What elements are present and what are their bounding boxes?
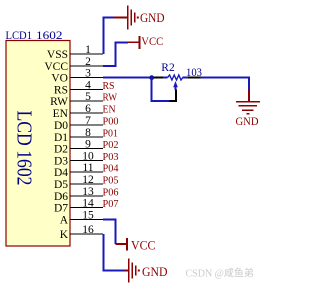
- wire VCC pin2 to top VCC: [103, 42, 128, 66]
- svg-text:D0: D0: [54, 120, 68, 132]
- svg-text:103: 103: [186, 65, 202, 79]
- pin 9 (D2): [54, 138, 103, 155]
- svg-text:VSS: VSS: [47, 49, 68, 61]
- svg-text:D5: D5: [54, 179, 68, 191]
- junction node VO: [149, 75, 154, 80]
- svg-text:VCC: VCC: [44, 61, 68, 73]
- svg-text:9: 9: [85, 138, 91, 150]
- svg-text:CSDN @咸鱼弟: CSDN @咸鱼弟: [186, 267, 254, 280]
- pin 14 (D7): [54, 197, 103, 214]
- svg-text:5: 5: [85, 91, 91, 103]
- svg-text:14: 14: [82, 197, 94, 209]
- ground GND (right, earth): [236, 90, 261, 128]
- svg-text:P00: P00: [103, 116, 119, 128]
- svg-text:VCC: VCC: [131, 239, 156, 253]
- pin 15 (A): [60, 209, 103, 226]
- svg-text:GND: GND: [142, 264, 168, 279]
- pin 7 (D0): [54, 115, 103, 132]
- svg-text:D3: D3: [54, 156, 68, 168]
- svg-text:3: 3: [85, 67, 91, 79]
- svg-text:8: 8: [85, 127, 91, 139]
- svg-text:LCD 1602: LCD 1602: [13, 111, 37, 186]
- svg-text:P07: P07: [103, 198, 119, 210]
- wire VO pin3 to R2 and right GND: [103, 77, 152, 79]
- svg-text:A: A: [60, 215, 69, 227]
- wire wiper return loop: [152, 78, 170, 102]
- svg-text:P05: P05: [103, 175, 119, 187]
- svg-text:P06: P06: [103, 187, 119, 199]
- svg-text:GND: GND: [236, 114, 259, 128]
- svg-text:6: 6: [85, 103, 91, 115]
- svg-text:10: 10: [82, 150, 94, 162]
- pin 11 (D4): [54, 162, 103, 179]
- wire VSS pin1 to top GND: [104, 18, 116, 55]
- svg-text:15: 15: [82, 209, 94, 221]
- svg-text:K: K: [60, 229, 69, 241]
- svg-text:RW: RW: [50, 96, 68, 108]
- power VCC (top): [127, 34, 163, 49]
- svg-text:12: 12: [82, 174, 94, 186]
- resistor R2 (potentiometer): [168, 75, 183, 90]
- pin 6 (EN): [53, 103, 103, 120]
- pin 2 (VCC): [44, 56, 103, 73]
- ground GND (bottom, power ground): [125, 259, 168, 283]
- svg-text:P03: P03: [103, 151, 119, 163]
- svg-text:EN: EN: [103, 104, 116, 116]
- pin 13 (D6): [54, 186, 103, 203]
- svg-text:P02: P02: [103, 139, 119, 151]
- pin 10 (D3): [54, 150, 103, 167]
- wire K pin16 to bottom GND: [104, 234, 126, 271]
- svg-text:D1: D1: [54, 132, 68, 144]
- svg-text:7: 7: [85, 115, 91, 127]
- svg-text:RS: RS: [54, 85, 68, 97]
- svg-text:RS: RS: [103, 80, 115, 92]
- svg-text:11: 11: [82, 162, 93, 174]
- ground GND (top, power ground): [114, 6, 165, 30]
- pin 4 (RS): [54, 79, 103, 96]
- svg-text:1602: 1602: [36, 28, 63, 42]
- pin 16 (K): [60, 224, 103, 241]
- wire A pin15 to bottom VCC: [103, 220, 116, 245]
- svg-text:13: 13: [82, 186, 94, 198]
- svg-text:GND: GND: [140, 10, 165, 25]
- svg-text:D7: D7: [54, 203, 68, 215]
- svg-text:P04: P04: [103, 163, 119, 175]
- svg-text:EN: EN: [53, 108, 69, 120]
- pin 5 (RW): [50, 91, 103, 108]
- svg-text:VO: VO: [51, 73, 68, 85]
- pin 1 (VSS): [47, 44, 103, 61]
- LCD module LCD1 body: [6, 41, 70, 247]
- svg-text:D4: D4: [54, 167, 68, 179]
- svg-text:RW: RW: [103, 92, 118, 104]
- svg-text:P01: P01: [103, 128, 119, 140]
- pin 3 (VO): [51, 67, 103, 84]
- svg-text:16: 16: [82, 224, 94, 236]
- pin 8 (D1): [54, 127, 103, 144]
- svg-text:D2: D2: [54, 144, 68, 156]
- svg-text:LCD1: LCD1: [6, 28, 33, 42]
- svg-text:VCC: VCC: [141, 34, 163, 48]
- pin 12 (D5): [54, 174, 103, 191]
- svg-text:R2: R2: [161, 62, 175, 74]
- svg-text:D6: D6: [54, 191, 68, 203]
- svg-text:2: 2: [85, 56, 91, 68]
- power VCC (bottom): [116, 238, 156, 253]
- svg-text:4: 4: [85, 79, 91, 91]
- svg-text:1: 1: [85, 44, 91, 56]
